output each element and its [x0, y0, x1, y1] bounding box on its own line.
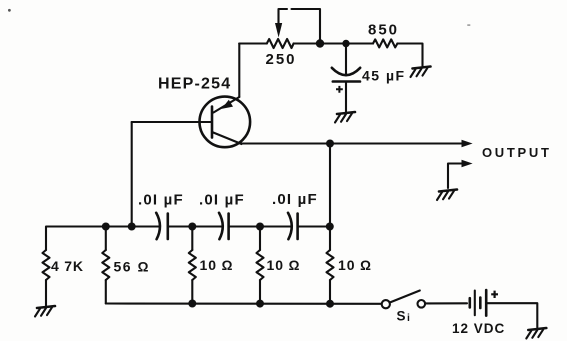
- capacitor C1 .01uF curved plate: [156, 213, 160, 239]
- svg-text:HEP-254: HEP-254: [158, 76, 231, 93]
- node 10ohm R4 top: [256, 223, 264, 231]
- wire 45uF top lead: [345, 44, 347, 76]
- node 10ohm R5 top: [326, 223, 334, 231]
- svg-text:10Ω: 10Ω: [267, 257, 301, 273]
- potentiometer wiper arrow: [275, 23, 282, 38]
- capacitor C2 .01uF straight plate: [227, 214, 230, 240]
- transistor emitter lead with arrow: [214, 97, 240, 113]
- wire 45uF bottom lead: [345, 82, 347, 112]
- resistor 850: [373, 39, 397, 47]
- arrowhead output lower: [462, 160, 473, 168]
- potentiometer 250: [267, 39, 294, 48]
- wire loop top of potentiometer: [279, 9, 321, 44]
- polarity plus of 45 uF: [336, 86, 343, 93]
- node junction 45uF branch: [342, 40, 349, 47]
- arrowhead output top: [462, 140, 473, 148]
- svg-text:10Ω: 10Ω: [200, 257, 234, 273]
- svg-text:OUTPUT: OUTPUT: [482, 145, 552, 160]
- scan speck top-left: [8, 9, 11, 12]
- wire collector junction down to rail: [329, 144, 331, 227]
- scan speck top-right: [467, 24, 470, 26]
- ground right of 850: [411, 67, 431, 78]
- svg-text:850: 850: [368, 22, 399, 39]
- node bottom rail R4: [256, 300, 264, 308]
- svg-text:250: 250: [266, 51, 297, 68]
- wire capacitor rail segment 2: [169, 225, 223, 227]
- capacitor C1 .01uF straight plate: [167, 214, 170, 240]
- resistor 10 ohm R3: [189, 227, 196, 304]
- svg-text:10Ω: 10Ω: [338, 257, 372, 273]
- capacitor C3 .01uF curved plate: [288, 213, 292, 239]
- wire collector output line: [241, 142, 464, 144]
- capacitor 45 uF curved plate: [332, 68, 360, 75]
- svg-text:4 7K: 4 7K: [51, 258, 84, 274]
- node bottom rail R3: [188, 300, 196, 308]
- node 56ohm top: [102, 223, 110, 231]
- svg-text:.0I µF: .0I µF: [138, 192, 184, 209]
- switch S1: [382, 291, 425, 309]
- node collector junction: [326, 140, 334, 148]
- resistor 10 ohm R5: [327, 227, 334, 304]
- capacitor 45 uF straight plate: [333, 80, 360, 83]
- svg-text:45 µF: 45 µF: [362, 68, 406, 84]
- polarity plus of battery: [491, 291, 498, 298]
- wire battery to ground: [486, 303, 537, 327]
- node bottom rail R5: [326, 300, 334, 308]
- capacitor C3 .01uF straight plate: [296, 214, 299, 240]
- wire output lower stub: [448, 164, 464, 189]
- resistor 10 ohm R4: [257, 227, 264, 304]
- transistor collector lead: [212, 132, 242, 144]
- wire bottom rail: [106, 302, 382, 304]
- wire pot to node A: [294, 42, 373, 44]
- wire capacitor rail segment 4: [299, 225, 330, 227]
- ground below lower output stub: [437, 190, 457, 201]
- node base junction on rail: [128, 223, 136, 231]
- svg-text:56Ω: 56Ω: [114, 259, 150, 275]
- transistor Q1 circle: [200, 97, 251, 148]
- wire capacitor rail segment 1: [46, 227, 160, 251]
- wire 850 to ground: [397, 44, 422, 67]
- wire emitter to pot line: [238, 44, 240, 98]
- capacitor C2 .01uF curved plate: [219, 213, 223, 239]
- transistor base bar: [211, 107, 214, 138]
- battery 12 VDC: [470, 290, 486, 316]
- node 10ohm R3 top: [188, 223, 196, 231]
- wire base lead: [132, 121, 211, 123]
- resistor 56 ohm: [102, 227, 109, 304]
- node junction pot-loop: [316, 39, 324, 47]
- svg-text:.0I µF: .0I µF: [199, 192, 245, 209]
- wire switch to battery: [425, 302, 467, 304]
- svg-text:12 VDC: 12 VDC: [452, 321, 505, 336]
- ground below 4.7K: [35, 306, 55, 317]
- wire base down to capacitor rail: [131, 122, 133, 227]
- ground below 45uF: [335, 112, 355, 123]
- svg-text:.0I µF: .0I µF: [272, 191, 318, 208]
- ground bottom right: [526, 328, 546, 339]
- resistor 4.7K: [43, 250, 50, 306]
- wire pot left lead: [239, 42, 267, 44]
- wire capacitor rail segment 3: [230, 225, 292, 227]
